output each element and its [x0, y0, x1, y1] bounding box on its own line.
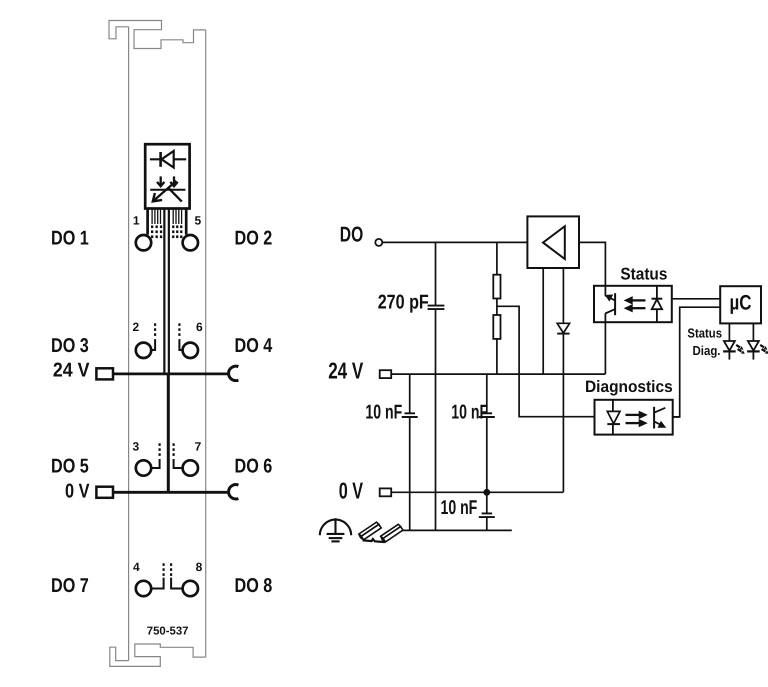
op-amp U1 triangle	[543, 226, 565, 259]
wire pin 7 contact stub	[174, 459, 182, 468]
svg-text:10 nF: 10 nF	[451, 401, 488, 423]
svg-text:10 nF: 10 nF	[365, 401, 402, 423]
module left edge	[128, 27, 130, 661]
24V pass-through clamp	[229, 366, 239, 380]
capacitor C4 10nF	[479, 513, 495, 517]
MODULE-TEXT	[51, 214, 273, 638]
resistor R1	[493, 275, 500, 299]
svg-text:Status: Status	[620, 264, 667, 283]
svg-text:Status: Status	[687, 326, 722, 341]
phototransistor Q2 in diagnostics opto	[654, 407, 665, 429]
wire driver output to status opto	[579, 242, 605, 286]
SCHEMATIC-GROUP	[320, 216, 768, 542]
wire uC to diag LED	[752, 323, 754, 341]
LED indicator symbol inside LED box	[150, 176, 185, 201]
wire driver lower-right with diode to 0V	[562, 268, 564, 492]
0V crossbar wire	[113, 491, 227, 494]
svg-text:DO 6: DO 6	[235, 455, 273, 477]
LED box U10	[145, 144, 189, 208]
svg-text:0 V: 0 V	[65, 481, 90, 503]
dotted stub pin 8	[170, 563, 172, 576]
capacitor C1 270pF	[428, 306, 445, 310]
24V feed terminal square on module	[96, 368, 113, 379]
diode D10 inside LED box	[150, 151, 186, 168]
svg-text:DO 4: DO 4	[235, 335, 274, 357]
opto-coupler U3 diagnostics box	[595, 400, 673, 435]
dotted stub pin 2	[154, 323, 156, 336]
terminal circle pin 2	[136, 343, 151, 358]
svg-text:DO 8: DO 8	[235, 575, 273, 597]
wire status emitter to 24V rail	[604, 322, 606, 374]
wire pin 6 contact stub	[179, 339, 182, 350]
terminal circle pin 3	[136, 460, 151, 475]
terminal circle pin 8	[183, 581, 198, 596]
wire 0V rail	[391, 491, 563, 493]
internal bus double line	[163, 209, 165, 374]
SCHEMATIC-TEXT	[328, 223, 751, 519]
uC box	[720, 286, 761, 323]
wire status opto to uC upper	[672, 298, 720, 300]
dotted stub pin 6	[178, 323, 180, 336]
wire pin 4 contact stub	[152, 578, 163, 589]
svg-text:6: 6	[196, 320, 203, 334]
ground symbol functional earth	[320, 518, 351, 541]
wire divider tap to diagnostics LED	[497, 306, 595, 416]
wire 10nF no2 branch	[486, 374, 488, 530]
wire pin 3 contact stub	[152, 459, 159, 468]
svg-text:DO 2: DO 2	[235, 227, 273, 249]
wire comb outer left conductor	[146, 209, 149, 235]
svg-text:µC: µC	[730, 292, 752, 315]
terminal circle pin 7	[183, 460, 198, 475]
node DO input terminal	[375, 239, 382, 246]
dotted stub pin 4	[163, 563, 165, 576]
MODULE-INTERNALS	[96, 144, 238, 596]
module top mounting profile	[109, 21, 206, 49]
svg-text:270 pF: 270 pF	[378, 291, 429, 313]
0V feed terminal square on module	[96, 487, 113, 498]
module bottom profile	[110, 644, 206, 666]
dotted conductor grid	[151, 225, 182, 238]
svg-text:750-537: 750-537	[147, 625, 189, 637]
svg-text:7: 7	[195, 440, 202, 454]
dotted stub pin 3	[159, 443, 161, 456]
op-amp U1 output driver box	[527, 216, 579, 268]
terminal circle pin 5	[183, 235, 198, 250]
dotted stub pin 7	[173, 443, 175, 456]
wire bottom ground rail	[402, 529, 512, 531]
svg-text:10 nF: 10 nF	[441, 497, 478, 519]
wire 10nF no1 branch	[409, 374, 411, 530]
wire DO input to driver	[382, 241, 527, 243]
svg-text:DO: DO	[340, 223, 363, 247]
wire pin 2 contact stub	[152, 339, 155, 350]
wire uC to status LED	[728, 323, 730, 341]
internal bus single line	[167, 374, 170, 492]
wire diagnostics to uC lower	[673, 307, 721, 417]
opto-coupler U2 status box	[594, 286, 672, 322]
wire diagnostics opto collector stub	[673, 416, 680, 418]
photodiode D2 in status opto	[652, 286, 663, 322]
svg-text:DO 7: DO 7	[51, 575, 89, 597]
MODULE-OUTLINE-GROUP	[109, 21, 206, 667]
wire driver lower-left to 24V rail	[542, 268, 544, 374]
light emission arrows status LED	[735, 343, 746, 355]
junction dot 0V rail	[483, 489, 490, 496]
wire pin 8 contact stub	[171, 578, 182, 589]
0V terminal square	[380, 488, 392, 496]
svg-text:Diag.: Diag.	[693, 343, 721, 358]
capacitor C3 10nF	[479, 413, 495, 417]
resistor R2	[493, 315, 500, 339]
phototransistor Q1 in status opto	[605, 286, 615, 322]
light arrows in status opto	[625, 297, 646, 312]
wire branch to 270pF and ground	[435, 242, 437, 530]
capacitor C2 10nF	[402, 413, 418, 417]
svg-text:8: 8	[196, 560, 203, 574]
24V crossbar wire	[113, 372, 227, 375]
svg-text:5: 5	[195, 214, 202, 228]
svg-text:DO 5: DO 5	[51, 455, 89, 477]
svg-text:Diagnostics: Diagnostics	[585, 378, 673, 396]
light arrows in diagnostics opto	[626, 412, 647, 427]
light emission arrows diag LED	[759, 343, 768, 355]
svg-text:4: 4	[133, 560, 140, 574]
wire comb inner conductors	[152, 209, 182, 225]
LED D5 diag	[747, 341, 760, 360]
DIN rail symbol	[359, 522, 403, 542]
svg-text:DO 1: DO 1	[51, 227, 89, 249]
svg-text:3: 3	[133, 440, 140, 454]
24V terminal square	[380, 370, 392, 378]
svg-text:DO 3: DO 3	[51, 335, 89, 357]
svg-text:1: 1	[133, 214, 140, 228]
svg-text:2: 2	[133, 320, 140, 334]
svg-text:0 V: 0 V	[339, 478, 364, 504]
wire branch to resistor divider	[496, 242, 498, 374]
terminal circle pin 6	[183, 343, 198, 358]
svg-text:24 V: 24 V	[53, 360, 90, 382]
svg-text:24 V: 24 V	[328, 358, 364, 384]
module right edge	[205, 30, 207, 657]
LED D4 status	[723, 341, 736, 360]
terminal circle pin 1	[136, 235, 151, 250]
wire 24V rail	[391, 373, 605, 375]
wire comb outer right conductor	[185, 209, 188, 235]
diode D1	[557, 323, 569, 333]
0V pass-through clamp	[229, 485, 239, 499]
LED D3 in diagnostics opto	[607, 400, 620, 435]
terminal circle pin 4	[136, 581, 151, 596]
